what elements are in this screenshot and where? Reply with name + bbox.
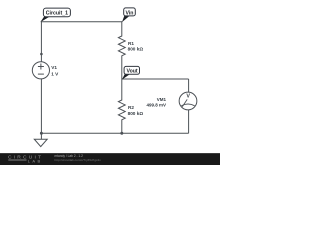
svg-text:Circuit_1: Circuit_1: [46, 11, 68, 17]
svg-text:499.8 mV: 499.8 mV: [146, 103, 166, 108]
svg-text:V: V: [186, 94, 190, 100]
svg-text:R2: R2: [128, 105, 134, 110]
svg-text:LAB: LAB: [28, 158, 43, 163]
svg-text:VM1: VM1: [157, 97, 167, 102]
svg-text:800 kΩ: 800 kΩ: [128, 111, 144, 116]
svg-text:1 V: 1 V: [51, 72, 59, 77]
svg-text:Vin: Vin: [126, 11, 134, 17]
svg-text:R1: R1: [128, 41, 134, 46]
svg-text:Vout: Vout: [127, 69, 138, 75]
svg-text:800 kΩ: 800 kΩ: [128, 47, 144, 52]
svg-text:http://circuitlab.com/c/7ry65d: http://circuitlab.com/c/7ry65d7gc4x: [55, 158, 102, 162]
svg-text:V1: V1: [51, 65, 57, 70]
